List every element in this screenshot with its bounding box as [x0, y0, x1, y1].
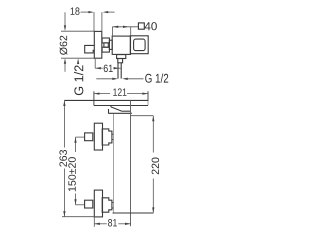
G 1/2 outlet leader right arrow	[122, 78, 128, 80]
dimension 121 text	[113, 88, 126, 95]
dimension 263 line upper	[63, 100, 65, 147]
dimension 40 extension line left	[111, 27, 113, 37]
dimension 61 text	[104, 65, 113, 73]
valve body side view	[112, 36, 130, 54]
dimension 81 arrow left	[94, 223, 100, 225]
dimension 150+-20 extension bottom	[76, 204, 85, 206]
dimension 40 line	[112, 26, 138, 28]
dimension 61 arrow left	[95, 67, 101, 69]
handle bar top line with 263 extension	[64, 99, 148, 101]
bottom inlet escutcheon	[94, 190, 102, 217]
dimension 263 extension bottom	[62, 216, 94, 218]
top inlet escutcheon	[94, 123, 102, 150]
dimension 121 arrow right	[142, 92, 148, 94]
dimension 263 line lower	[63, 169, 65, 217]
G 1/2 right label text	[145, 73, 168, 82]
handle stem	[109, 40, 112, 49]
bottom inlet pipe stub	[112, 203, 114, 208]
G 1/2 left label arrow up	[77, 58, 79, 64]
dimension 18 line right	[108, 11, 115, 13]
dimension 81 extension left	[93, 216, 95, 227]
dimension 150+-20 extension top	[76, 136, 85, 138]
body bottom line with 220 extension	[113, 212, 154, 214]
dimension 61 extension line	[94, 59, 96, 68]
dimension 40 extension line right	[130, 27, 132, 36]
dimension O62 line bottom	[64, 63, 66, 72]
dimension 150+-20 arrow top	[74, 137, 76, 143]
body column left light line	[112, 114, 114, 213]
dimension 61 line right	[113, 67, 121, 69]
handle bar left cap and 121 extension	[93, 91, 95, 105]
dimension 40 arrow left	[113, 26, 119, 28]
cartridge ledge upper	[122, 110, 131, 112]
handle bar right cap and 121 extension	[147, 91, 149, 101]
dimension 81 line left	[94, 223, 107, 225]
cartridge ledge lower	[108, 112, 132, 114]
handle knob upper disc	[102, 38, 109, 43]
dimension 220 arrow top	[152, 116, 154, 122]
dimension 61 line left	[95, 67, 103, 69]
wall flange square front view	[130, 36, 148, 54]
dimension O62 line top	[64, 12, 66, 26]
G 1/2 left label text	[74, 65, 83, 95]
handle wedge left face	[108, 109, 110, 113]
G 1/2 outlet leader left arrow	[112, 78, 118, 80]
dimension 263 text	[59, 150, 67, 167]
body column right dark line with 81 extension	[130, 101, 132, 227]
outlet pipe wall right	[120, 63, 122, 79]
dimension 121 arrow left	[94, 92, 100, 94]
outlet nut	[118, 59, 123, 63]
dimension 150+-20 text	[68, 157, 76, 191]
handle knob lower disc	[102, 47, 109, 52]
dimension 121 line right	[127, 93, 148, 95]
handle wedge vertical	[110, 106, 112, 107]
handle bar bottom line	[94, 105, 148, 107]
dimension O62 text	[60, 36, 68, 55]
dimension 220 text	[152, 158, 160, 175]
handle lever side profile	[85, 45, 95, 53]
dimension 18 arrow right	[103, 11, 109, 13]
dimension 81 text	[108, 219, 117, 227]
dimension O62 extension line bottom	[61, 57, 94, 59]
bottom inlet nut	[85, 200, 93, 208]
dimension 220 arrow bottom	[152, 207, 154, 213]
handle knob waist	[104, 43, 108, 47]
dimension 150+-20 arrow bottom	[74, 199, 76, 205]
dimension 40 square symbol	[138, 23, 144, 29]
dimension O62 arrow top	[64, 25, 66, 31]
top inlet union	[102, 129, 112, 145]
top inlet pipe stub	[112, 134, 114, 139]
dimension 18 arrow left	[88, 11, 94, 13]
dimension O62 arrow bottom	[64, 58, 66, 64]
dimension 81 line right	[118, 223, 130, 225]
dimension 81 arrow right	[125, 223, 131, 225]
G 1/2 outlet leader right line	[127, 78, 144, 80]
dimension 150+-20 line upper	[75, 137, 77, 152]
dimension 18 extension line left	[93, 12, 95, 31]
dimension 18 extension line right	[101, 12, 103, 31]
handle bar right cap lower	[147, 101, 149, 106]
outlet pipe wall left	[117, 63, 119, 79]
outlet flange	[117, 55, 126, 59]
dimension 220 line upper	[152, 116, 154, 153]
dimension 61 arrow right	[114, 67, 120, 69]
dimension 18 line left	[81, 11, 90, 13]
bottom inlet union	[102, 198, 112, 212]
dimension 121 line left	[94, 93, 110, 95]
dimension 263 arrow top	[63, 100, 65, 106]
handle wedge diagonal	[111, 107, 122, 111]
dimension 220 line lower	[152, 179, 154, 214]
escutcheon disc side view	[94, 31, 102, 58]
dimension 18 text	[71, 7, 80, 14]
top inlet nut	[85, 133, 93, 141]
dimension O62 extension line top	[61, 30, 94, 32]
body square front view	[134, 39, 146, 51]
dimension 150+-20 line lower	[75, 194, 77, 205]
dimension 263 arrow bottom	[63, 211, 65, 217]
dimension 40 text	[145, 22, 157, 30]
dimension 220 extension top	[131, 115, 154, 117]
G 1/2 outlet leader left line	[96, 78, 113, 80]
dimension 40 arrow right	[123, 26, 129, 28]
